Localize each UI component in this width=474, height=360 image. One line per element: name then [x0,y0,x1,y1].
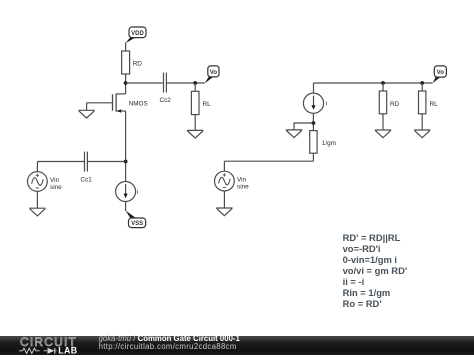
node output junction [193,81,197,85]
node below current source [312,121,316,125]
wire source down to current source [125,111,127,182]
ground below Vin (left) [29,208,45,216]
ground below RL (left) [187,130,203,138]
CircuitLab logo [0,336,92,355]
node drain junction [124,81,128,85]
ground below Vin (right) [216,208,232,216]
wire drain vertical [125,93,127,95]
current source I1 [116,182,139,202]
wire gate down to ground [86,103,88,111]
wire 1/gm to node [312,113,314,130]
wire VDD to RD [125,43,127,52]
transistor M1 NMOS [113,94,148,113]
wire Cc2 to output node [167,82,205,84]
power flag VSS [126,211,146,228]
svg-text:VDD: VDD [131,31,144,37]
resistor 1/gm [310,131,336,154]
resistor RD (right) [379,91,399,114]
svg-text:NMOS: NMOS [129,100,148,107]
svg-text:Cc2: Cc2 [160,97,172,104]
wire node to RL [194,83,196,91]
ground below RD (right) [375,130,391,138]
node source junction [124,160,128,164]
svg-text:RL: RL [203,101,212,108]
source Vin sine (right) [215,161,250,191]
wire node to Cc2 [126,82,163,84]
ground at gate [78,110,94,118]
wire up to 1/gm [312,153,314,161]
svg-text:Cc1: Cc1 [81,176,93,183]
svg-text:Vin: Vin [237,176,247,183]
wire current source to top rail [313,83,315,93]
wire Vin to Cc1 [37,161,84,163]
wire node to RL [421,83,423,91]
wire gate [87,102,112,104]
ground small-signal [286,130,302,138]
power flag VDD [126,27,146,43]
svg-text:sine: sine [237,183,249,190]
wire RL to ground [194,115,196,131]
wire RL to ground [421,114,423,130]
footer bar [0,336,474,355]
wire RD to ground [382,114,384,130]
node RL tap [420,81,424,85]
net flag Vo (left) [205,66,219,84]
capacitor Cc2 [160,73,172,105]
svg-text:RD: RD [390,101,400,108]
svg-text:RL: RL [430,101,439,108]
svg-text:VSS: VSS [131,221,143,227]
svg-text:LAB: LAB [58,345,77,355]
equations text block [343,232,408,310]
current source i (right) [303,93,327,113]
svg-text:i: i [326,101,327,108]
net flag Vo (right) [432,66,446,84]
node RD tap [381,81,385,85]
wire top rail [314,82,433,84]
svg-text:Vo: Vo [437,70,445,76]
svg-text:Vin: Vin [50,177,60,184]
footer text [99,335,240,351]
ground below RL (right) [414,130,430,138]
resistor RL (right) [419,91,439,114]
wire Vin right to ground [223,191,225,208]
capacitor Cc1 [81,152,93,184]
wire current source to VSS [125,202,127,212]
wire Cc1 to source node [88,161,126,163]
wire node to RD [382,83,384,91]
source Vin sine (left) [28,162,63,192]
wire node to ground stub [294,123,313,130]
svg-text:sine: sine [50,184,62,191]
wire Vin to ground [36,191,38,208]
svg-text:i: i [137,189,138,196]
svg-text:1/gm: 1/gm [322,140,336,147]
svg-text:Vo: Vo [210,70,218,76]
resistor RL (left) [191,91,211,114]
wire bottom Vin to 1/gm [224,160,313,162]
svg-text:RD: RD [133,61,143,68]
resistor RD [122,51,143,74]
wire RD to drain node [125,74,127,94]
